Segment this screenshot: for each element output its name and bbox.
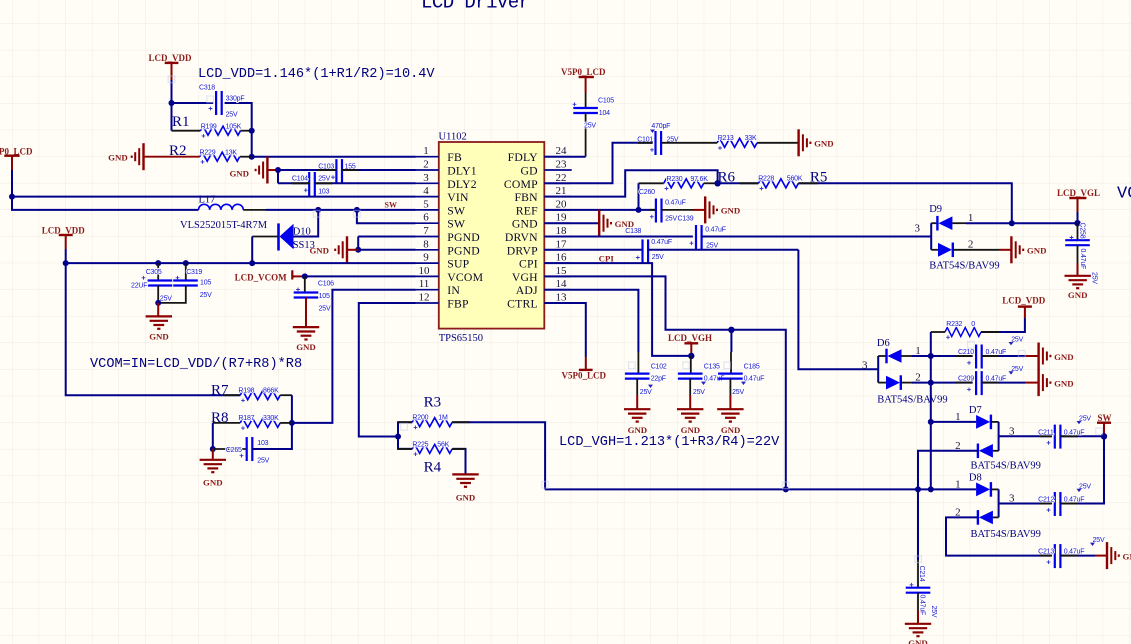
svg-text:0.47uF: 0.47uF xyxy=(744,376,765,383)
svg-text:4: 4 xyxy=(423,185,429,197)
svg-text:VCOM=IN=LCD_VDD/(R7+R8)*R8: VCOM=IN=LCD_VDD/(R7+R8)*R8 xyxy=(90,357,302,372)
svg-text:19: 19 xyxy=(556,212,568,224)
ground GND left of R2 xyxy=(108,143,143,170)
svg-text:GND: GND xyxy=(309,246,329,256)
svg-text:C106: C106 xyxy=(318,281,334,288)
svg-text:R228: R228 xyxy=(758,176,774,183)
ground GND below C135 xyxy=(677,409,703,435)
tiny parameter arrows xyxy=(648,130,1095,547)
svg-text:D7: D7 xyxy=(969,405,982,416)
svg-text:20: 20 xyxy=(556,198,568,210)
ground GND pins 7,8 xyxy=(309,236,415,263)
svg-text:GND: GND xyxy=(456,493,476,503)
svg-text:R2: R2 xyxy=(169,143,187,159)
node LCD_VGH junction xyxy=(688,353,694,359)
diode D10 SS13 xyxy=(252,210,318,263)
resistor R4 56K xyxy=(398,437,466,476)
svg-text:C258: C258 xyxy=(1079,223,1086,239)
svg-text:104: 104 xyxy=(599,110,610,117)
svg-text:16: 16 xyxy=(556,252,568,264)
svg-text:25V: 25V xyxy=(226,111,238,118)
ground GND below R4 xyxy=(452,474,478,502)
svg-text:D9: D9 xyxy=(929,204,942,215)
resistor R228 560K (R5) xyxy=(718,170,1012,224)
svg-text:R199: R199 xyxy=(201,123,217,130)
svg-text:FDLY: FDLY xyxy=(508,151,539,164)
capacitor C105 104 xyxy=(573,93,615,157)
svg-text:0.47uF: 0.47uF xyxy=(919,595,926,616)
svg-text:CPI: CPI xyxy=(599,253,615,263)
svg-text:LCD_VGH=1.213*(1+R3/R4)=22V: LCD_VGH=1.213*(1+R3/R4)=22V xyxy=(559,435,780,450)
op-amp U1102 TPS65150 IC body xyxy=(439,132,545,345)
wire ADJ pin14 down to C102 xyxy=(544,290,638,352)
svg-text:0.47uF: 0.47uF xyxy=(1079,249,1086,270)
svg-text:U1102: U1102 xyxy=(439,132,467,143)
svg-text:VIN: VIN xyxy=(447,191,469,204)
power port LCD_VGL xyxy=(1057,188,1100,223)
svg-text:1: 1 xyxy=(955,479,961,491)
svg-text:103: 103 xyxy=(257,440,268,447)
svg-text:1: 1 xyxy=(955,411,961,423)
power port LCD_VGH xyxy=(668,333,712,356)
svg-text:25V: 25V xyxy=(318,175,330,182)
svg-text:15: 15 xyxy=(556,265,568,277)
svg-text:R1: R1 xyxy=(172,114,190,130)
wire REF pin20 xyxy=(544,209,656,211)
capacitor C138 0.47uF on DRVP xyxy=(544,228,798,264)
svg-text:C305: C305 xyxy=(146,269,162,276)
svg-text:D6: D6 xyxy=(877,338,890,349)
capacitor C106 105 xyxy=(293,276,334,352)
svg-text:LCD_VGL: LCD_VGL xyxy=(1057,188,1100,198)
svg-text:3: 3 xyxy=(423,172,429,184)
svg-text:GND: GND xyxy=(108,152,128,162)
ground GND below C214 clipped xyxy=(905,624,931,644)
svg-text:9: 9 xyxy=(423,252,429,264)
wire IN net pin11 to R7/R8 node xyxy=(292,290,416,423)
svg-text:D8: D8 xyxy=(969,473,982,484)
svg-text:470pF: 470pF xyxy=(651,123,670,130)
diode D9 BAT54S/BAV99 xyxy=(915,204,1078,272)
svg-text:R229: R229 xyxy=(200,149,216,156)
svg-text:GND: GND xyxy=(229,169,249,179)
svg-text:GND: GND xyxy=(512,218,538,231)
svg-text:12: 12 xyxy=(419,292,430,304)
svg-text:C104: C104 xyxy=(292,175,308,182)
svg-text:V5P0_LCD: V5P0_LCD xyxy=(561,67,606,77)
svg-text:C319: C319 xyxy=(186,269,202,276)
wire SUP net xyxy=(66,249,416,263)
svg-text:DLY2: DLY2 xyxy=(447,178,477,191)
svg-text:25V: 25V xyxy=(652,254,664,261)
svg-text:SW: SW xyxy=(447,204,466,217)
U1102 left pin numbers xyxy=(419,145,431,303)
svg-text:R187: R187 xyxy=(238,415,254,422)
svg-text:2: 2 xyxy=(968,239,974,251)
ground GND pin19 xyxy=(544,210,634,237)
power port LCD_VDD second xyxy=(42,225,86,249)
resistor R7 866K xyxy=(211,383,292,403)
svg-text:1: 1 xyxy=(968,212,974,224)
ground GND below C102 xyxy=(624,409,650,435)
svg-text:R198: R198 xyxy=(238,388,254,395)
svg-text:25V: 25V xyxy=(160,296,172,303)
svg-text:CTRL: CTRL xyxy=(507,298,538,311)
svg-text:8: 8 xyxy=(423,238,429,250)
U1102 left pins 1-12 xyxy=(416,157,439,303)
node C305/C319 bottom junction xyxy=(155,300,161,306)
wire LCD_VDD node xyxy=(172,80,252,131)
svg-text:BAT54S/BAV99: BAT54S/BAV99 xyxy=(971,529,1041,540)
svg-text:330pF: 330pF xyxy=(226,96,245,103)
svg-text:GND: GND xyxy=(203,478,223,488)
svg-text:BAT54S/BAV99: BAT54S/BAV99 xyxy=(971,460,1041,471)
svg-text:C318: C318 xyxy=(199,85,215,92)
svg-text:R232: R232 xyxy=(946,321,962,328)
svg-text:C260: C260 xyxy=(639,189,655,196)
svg-text:R7: R7 xyxy=(211,383,229,399)
svg-text:22pF: 22pF xyxy=(651,376,666,383)
svg-text:DLY1: DLY1 xyxy=(447,165,477,178)
svg-text:COMP: COMP xyxy=(504,178,538,191)
capacitor C319 105 xyxy=(158,263,212,303)
node R1-R2 right junction xyxy=(249,128,255,134)
svg-text:SW: SW xyxy=(385,201,397,210)
svg-text:1: 1 xyxy=(915,345,921,357)
svg-text:SUP: SUP xyxy=(447,258,469,271)
inductor L17 VLS252015T-4R7M xyxy=(180,194,268,231)
resistor R8 330K xyxy=(211,410,292,430)
svg-text:0.47uF: 0.47uF xyxy=(651,239,672,246)
svg-text:L17: L17 xyxy=(199,194,216,205)
svg-text:GND: GND xyxy=(149,331,169,341)
svg-text:LCD_VDD: LCD_VDD xyxy=(1002,296,1046,306)
svg-text:GND: GND xyxy=(681,425,701,435)
svg-text:103: 103 xyxy=(318,189,329,196)
wire VIN net xyxy=(12,170,416,197)
resistor R213 33K xyxy=(661,135,799,150)
power port V5P0_LCD lower xyxy=(562,357,607,381)
svg-text:25V: 25V xyxy=(706,243,718,250)
wire D6 column vertical xyxy=(930,332,932,489)
ghost hotspot marks xyxy=(168,76,1102,563)
capacitor C305 22UF xyxy=(131,263,172,303)
svg-text:PGND: PGND xyxy=(447,244,480,257)
svg-text:6: 6 xyxy=(423,212,429,224)
svg-text:11: 11 xyxy=(419,278,430,290)
capacitor C135 0.47uF xyxy=(678,356,724,409)
svg-text:GND: GND xyxy=(1123,551,1131,561)
capacitor C209 0.47uF xyxy=(931,366,1039,395)
ground GND below C305 xyxy=(146,303,172,341)
svg-text:C139: C139 xyxy=(678,216,694,223)
U1102 right pin names xyxy=(504,151,538,310)
svg-text:C214: C214 xyxy=(918,566,925,582)
svg-text:0.47uF: 0.47uF xyxy=(665,199,686,206)
svg-text:GND: GND xyxy=(296,342,316,352)
svg-text:25V: 25V xyxy=(665,216,677,223)
svg-text:330K: 330K xyxy=(263,415,279,422)
svg-text:GND: GND xyxy=(1027,246,1047,256)
wire FDLY pin24 xyxy=(544,156,585,158)
ground GND right of C260 xyxy=(705,196,740,223)
ground GND below C185 xyxy=(717,409,743,435)
capacitor C318 330pF xyxy=(199,85,244,119)
svg-text:25V: 25V xyxy=(640,389,652,396)
svg-text:DRVP: DRVP xyxy=(507,244,538,257)
svg-text:GND: GND xyxy=(1068,290,1088,300)
capacitor C102 22pF xyxy=(625,352,667,409)
svg-text:R200: R200 xyxy=(412,415,428,422)
svg-text:R4: R4 xyxy=(424,459,442,475)
svg-text:V5P0_LCD: V5P0_LCD xyxy=(562,371,607,381)
svg-text:TPS65150: TPS65150 xyxy=(439,333,483,344)
svg-text:0.47uF: 0.47uF xyxy=(1064,429,1085,436)
svg-text:SW: SW xyxy=(1098,413,1112,423)
svg-text:105K: 105K xyxy=(226,123,242,130)
power port LCD_VDD right xyxy=(1002,296,1046,319)
capacitor C104 xyxy=(278,172,416,196)
svg-text:LCD_VDD=1.146*(1+R1/R2)=10.4V: LCD_VDD=1.146*(1+R1/R2)=10.4V xyxy=(198,67,435,82)
svg-text:0: 0 xyxy=(971,321,975,328)
svg-text:560K: 560K xyxy=(787,176,803,183)
ground GND near C103/C104 xyxy=(229,157,281,184)
svg-text:22: 22 xyxy=(556,172,567,184)
capacitor C214 0.47uF bottom xyxy=(906,489,937,623)
node C185 junction xyxy=(728,327,734,333)
wire VGH pin15 over to right column xyxy=(544,276,786,489)
svg-text:25V: 25V xyxy=(584,123,596,130)
svg-text:2: 2 xyxy=(915,372,921,384)
power port P0_LCD left edge xyxy=(0,147,33,170)
capacitor C212 0.47uF xyxy=(999,483,1104,516)
svg-text:PGND: PGND xyxy=(447,231,480,244)
svg-text:97.6K: 97.6K xyxy=(690,176,708,183)
resistor R2 13K xyxy=(144,143,252,164)
wire black pin stubs xyxy=(224,143,1078,556)
resistor R230 97.6K xyxy=(639,170,736,191)
svg-text:REF: REF xyxy=(516,204,538,217)
svg-text:LCD_VGH: LCD_VGH xyxy=(668,333,712,343)
wire LCD_VDD down to R7 xyxy=(66,263,241,395)
svg-text:GND: GND xyxy=(721,425,741,435)
svg-text:13: 13 xyxy=(556,292,568,304)
svg-text:0.47uF: 0.47uF xyxy=(986,349,1007,356)
ground GND right of D9 pin2 xyxy=(1011,236,1046,263)
svg-text:0.47uF: 0.47uF xyxy=(705,227,726,234)
svg-text:25V: 25V xyxy=(257,457,269,464)
wire COMP pin22 up to C101 row xyxy=(544,143,652,184)
wire CTRL pin13 down to V5P0_LCD xyxy=(544,303,586,357)
svg-text:FBN: FBN xyxy=(514,191,538,204)
svg-text:GND: GND xyxy=(628,425,648,435)
resistor R3 1M xyxy=(398,395,545,490)
svg-text:C138: C138 xyxy=(625,228,641,235)
wire FBP net pin12 down to R3/R4 xyxy=(359,303,416,437)
svg-text:R230: R230 xyxy=(667,176,683,183)
capacitor C211 0.47uF xyxy=(999,415,1104,448)
diode D7 BAT54S/BAV99 xyxy=(918,405,1041,489)
node R5/D9 junction xyxy=(1009,220,1015,226)
svg-text:C185: C185 xyxy=(744,364,760,371)
wire VGH long horizontal xyxy=(545,488,931,490)
node R3/R4/FBP junction xyxy=(395,434,401,440)
svg-text:25V: 25V xyxy=(732,389,744,396)
svg-text:24: 24 xyxy=(556,145,568,157)
svg-text:C105: C105 xyxy=(598,97,614,104)
power port LCD_VCOM xyxy=(235,270,305,282)
svg-text:56K: 56K xyxy=(437,441,449,448)
svg-text:FB: FB xyxy=(447,151,462,164)
svg-text:SW: SW xyxy=(447,218,466,231)
svg-text:DRVN: DRVN xyxy=(505,231,538,244)
svg-text:25V: 25V xyxy=(693,389,705,396)
svg-text:14: 14 xyxy=(556,278,568,290)
wire VCOM net to pin10 xyxy=(305,275,416,277)
resistor R232 0 xyxy=(931,318,1025,339)
svg-text:0.47uF: 0.47uF xyxy=(986,376,1007,383)
capacitor C265 103 parallel R8 xyxy=(210,423,292,465)
svg-text:C210: C210 xyxy=(958,349,974,356)
ground GND below C265 xyxy=(200,449,226,488)
node R230/R228/FBN junction xyxy=(714,180,720,186)
svg-text:ADJ: ADJ xyxy=(516,284,538,297)
wire DRVP pin17 down to D6 xyxy=(798,250,878,369)
wire SW net left xyxy=(12,197,199,210)
svg-text:GND: GND xyxy=(1054,352,1074,362)
svg-text:18: 18 xyxy=(556,225,568,237)
U1102 left pin names xyxy=(447,151,483,310)
svg-text:C209: C209 xyxy=(958,376,974,383)
wire FBN pin21 up over to R6 node xyxy=(544,170,717,196)
svg-text:LCD_VCOM: LCD_VCOM xyxy=(235,272,288,282)
svg-text:C135: C135 xyxy=(704,364,720,371)
svg-text:VGL: VGL xyxy=(1117,185,1131,204)
svg-text:25V: 25V xyxy=(1091,272,1098,284)
svg-text:21: 21 xyxy=(556,185,567,197)
wire CPI pin16 down to LCD_VGH node xyxy=(544,263,691,356)
U1102 right pin numbers xyxy=(556,145,568,303)
svg-text:105: 105 xyxy=(319,293,330,300)
capacitor C210 0.47uF xyxy=(931,336,1039,368)
svg-text:R213: R213 xyxy=(718,135,734,142)
svg-text:GND: GND xyxy=(814,139,834,149)
diode D8 BAT54S/BAV99 xyxy=(915,473,1052,556)
capacitor C185 0.47uF xyxy=(718,330,764,409)
svg-text:25V: 25V xyxy=(319,306,331,313)
svg-text:BAT54S/BAV99: BAT54S/BAV99 xyxy=(877,394,947,405)
svg-text:GND: GND xyxy=(1054,378,1074,388)
svg-text:R225: R225 xyxy=(412,441,428,448)
node LCD_VDD junction xyxy=(169,100,175,106)
svg-text:VGH: VGH xyxy=(512,271,538,284)
svg-text:BAT54S/BAV99: BAT54S/BAV99 xyxy=(929,261,999,272)
svg-text:CPI: CPI xyxy=(519,258,538,271)
power port SW right xyxy=(1097,413,1112,436)
svg-text:2: 2 xyxy=(955,440,961,452)
svg-text:7: 7 xyxy=(423,225,429,237)
wire DRVN pin18 xyxy=(544,236,693,238)
capacitor C258 0.47uF xyxy=(1065,223,1097,285)
ground GND right of C209 xyxy=(1039,369,1074,396)
wire SW net to pins 5,6 xyxy=(266,209,416,211)
U1102 right pins 24-13 xyxy=(544,157,571,303)
svg-text:33K: 33K xyxy=(745,135,757,142)
power port LCD_VDD top-left xyxy=(149,53,193,80)
svg-text:FBP: FBP xyxy=(447,298,469,311)
svg-text:13K: 13K xyxy=(225,149,237,156)
svg-text:1: 1 xyxy=(423,145,429,157)
svg-text:3: 3 xyxy=(915,222,921,234)
svg-text:25V: 25V xyxy=(930,606,937,618)
diode D6 BAT54S/BAV99 xyxy=(862,338,948,405)
capacitor C103 xyxy=(278,159,416,183)
svg-text:2: 2 xyxy=(423,159,429,171)
svg-text:C265: C265 xyxy=(226,447,242,454)
svg-text:105: 105 xyxy=(200,279,211,286)
svg-text:25V: 25V xyxy=(200,292,212,299)
capacitor C139 0.47uF on DRVN xyxy=(690,225,932,250)
node LCD_VGL junction xyxy=(1074,220,1080,226)
resistor R1 105K xyxy=(172,114,252,138)
capacitor C213 0.47uF xyxy=(1038,537,1107,568)
ground GND right of R213 xyxy=(799,129,834,156)
wire SW down to C212 xyxy=(1060,436,1104,503)
ground GND right of C213 clipped xyxy=(1107,542,1131,569)
svg-text:VCOM: VCOM xyxy=(447,271,483,284)
ground GND below C258 xyxy=(1065,276,1091,300)
svg-text:2: 2 xyxy=(955,507,961,519)
svg-text:GND: GND xyxy=(721,206,741,216)
svg-text:17: 17 xyxy=(556,238,568,250)
svg-text:23: 23 xyxy=(556,159,568,171)
power port V5P0_LCD top xyxy=(561,67,606,93)
svg-text:LCD Driver: LCD Driver xyxy=(421,0,530,14)
svg-text:IN: IN xyxy=(447,284,460,297)
svg-text:10: 10 xyxy=(419,265,431,277)
wire R7 to R8 junction xyxy=(291,395,293,423)
wire FB net to pin1 xyxy=(252,156,416,158)
svg-text:GD: GD xyxy=(521,165,538,178)
svg-text:GND: GND xyxy=(908,638,928,644)
ground GND right of C210 xyxy=(1039,343,1074,370)
capacitor C101 470pF xyxy=(637,123,679,155)
svg-text:22UF: 22UF xyxy=(131,282,147,289)
svg-text:D10: D10 xyxy=(293,226,311,237)
svg-text:VLS252015T-4R7M: VLS252015T-4R7M xyxy=(180,220,268,231)
svg-text:C102: C102 xyxy=(651,364,667,371)
node SW junction xyxy=(1101,433,1107,439)
svg-text:R3: R3 xyxy=(424,395,442,411)
svg-text:5: 5 xyxy=(423,198,429,210)
svg-text:866K: 866K xyxy=(263,388,279,395)
svg-text:C211: C211 xyxy=(1038,429,1054,436)
svg-text:1M: 1M xyxy=(438,415,448,422)
svg-text:3: 3 xyxy=(862,359,868,371)
capacitor C260 0.47uF on REF xyxy=(636,183,706,222)
svg-text:LCD_VDD: LCD_VDD xyxy=(149,53,193,63)
